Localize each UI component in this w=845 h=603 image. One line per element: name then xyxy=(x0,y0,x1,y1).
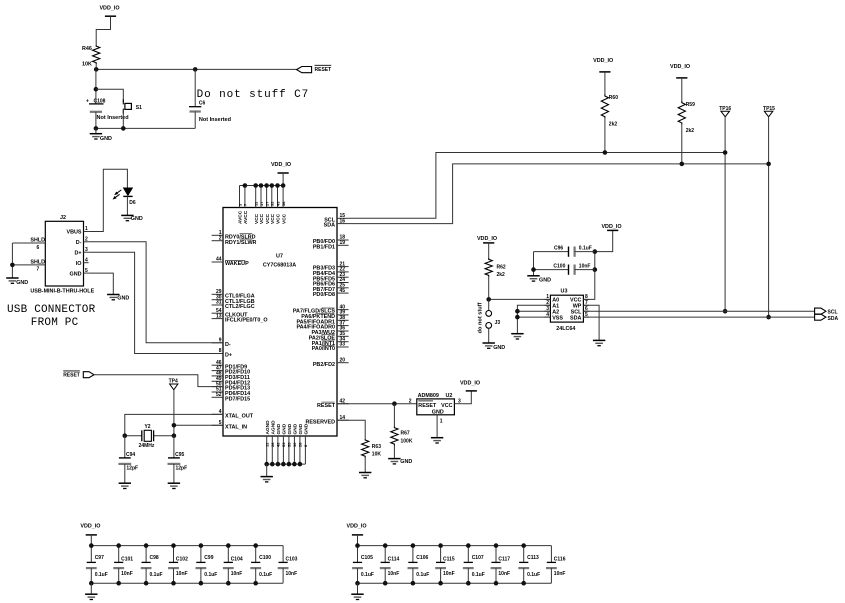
capacitor C113 0.1uF xyxy=(523,546,525,563)
svg-text:R62: R62 xyxy=(497,264,506,270)
terminal SDA xyxy=(815,314,826,320)
svg-text:VBUS: VBUS xyxy=(67,230,82,236)
svg-text:D+: D+ xyxy=(74,250,81,256)
svg-text:RESET: RESET xyxy=(63,373,80,379)
svg-text:VCC: VCC xyxy=(270,213,276,224)
wire TP4 down xyxy=(173,390,175,436)
ground (cap bank) xyxy=(90,583,92,594)
wire U2 VCC to VDD_IO xyxy=(462,391,471,404)
wire xyxy=(126,196,128,215)
svg-text:5: 5 xyxy=(85,268,88,274)
ground (U7) xyxy=(266,464,268,477)
wire SDA out xyxy=(583,316,814,318)
ground (D6) xyxy=(121,214,133,216)
svg-text:24LC64: 24LC64 xyxy=(556,326,575,332)
wire bottom bus xyxy=(91,582,283,584)
svg-text:VDD_IO: VDD_IO xyxy=(477,236,497,242)
svg-text:R60: R60 xyxy=(609,95,618,101)
wire D+ to U7 xyxy=(89,252,223,353)
wire VCC bus xyxy=(240,185,284,187)
svg-text:7: 7 xyxy=(37,267,40,273)
svg-text:10nF: 10nF xyxy=(498,571,510,577)
svg-text:GND: GND xyxy=(131,216,143,222)
jumper J3 (do not stuff) xyxy=(488,299,490,310)
eeprom U3 24LC64 box xyxy=(550,295,583,322)
svg-text:2k2: 2k2 xyxy=(686,128,695,134)
power VDD_IO (U7 top) xyxy=(278,172,289,174)
pin 38 PA5/FIFOADR1 (U7 right) xyxy=(337,319,349,321)
svg-text:10K: 10K xyxy=(82,62,92,68)
svg-text:8: 8 xyxy=(219,348,222,354)
capacitor C104 10nF xyxy=(227,546,229,563)
pin 4 XTAL_OUT (U7 left) xyxy=(212,413,223,415)
svg-text:1: 1 xyxy=(85,226,88,232)
svg-text:26: 26 xyxy=(270,442,275,447)
capacitor C106 0.1uF xyxy=(412,546,414,563)
svg-text:PD0/FD8: PD0/FD8 xyxy=(313,292,335,298)
svg-text:53: 53 xyxy=(281,442,286,447)
pin 7 WP (U3 right) xyxy=(583,304,589,306)
power VDD_IO (U3) xyxy=(607,229,618,231)
svg-text:S1: S1 xyxy=(136,105,142,111)
capacitor C96 0.1uF xyxy=(534,251,569,253)
svg-text:RESET: RESET xyxy=(418,403,437,409)
svg-text:R63: R63 xyxy=(372,444,381,450)
resistor R62 2k2 xyxy=(483,242,494,244)
svg-text:GND: GND xyxy=(304,423,310,434)
svg-text:SDA: SDA xyxy=(570,315,581,321)
svg-text:24MHz: 24MHz xyxy=(139,443,155,449)
ground (U2) xyxy=(431,437,443,439)
pin 2 RDY1/SLWR (U7 left) xyxy=(212,240,223,242)
ground (R63) xyxy=(359,472,371,474)
crystal Y2 24MHz xyxy=(125,435,142,437)
svg-text:USB CONNECTOR: USB CONNECTOR xyxy=(7,304,96,316)
capacitor C102 10nF xyxy=(173,546,175,563)
svg-text:C116: C116 xyxy=(554,557,566,563)
ground (C96/C100) xyxy=(527,275,539,277)
svg-text:C95: C95 xyxy=(175,452,184,458)
pin 1 VBUS (J2) xyxy=(84,231,89,233)
pin 34 PA1/INT1 (U7 right) xyxy=(337,341,349,343)
svg-text:PA0/INT0: PA0/INT0 xyxy=(312,346,335,352)
power VDD_IO (U2) xyxy=(466,390,477,392)
pin 6 SCL (U3 right) xyxy=(583,310,589,312)
svg-text:CTL2/FLGC: CTL2/FLGC xyxy=(225,304,255,310)
svg-text:44: 44 xyxy=(216,257,222,263)
svg-text:Y2: Y2 xyxy=(144,424,150,430)
svg-text:0.1uF: 0.1uF xyxy=(204,572,217,578)
svg-text:C115: C115 xyxy=(443,557,455,563)
svg-text:10nF: 10nF xyxy=(579,264,591,270)
pin GND (U7 bottom col 4) xyxy=(282,436,284,464)
svg-text:C108: C108 xyxy=(94,98,106,104)
wire RESET net xyxy=(95,64,97,69)
svg-text:10nF: 10nF xyxy=(231,571,243,577)
svg-text:SCL: SCL xyxy=(828,310,838,316)
svg-text:9: 9 xyxy=(219,338,222,344)
svg-text:FROM PC: FROM PC xyxy=(31,317,79,329)
pin 31 CTL2/FLGC (U7 left) xyxy=(212,304,223,306)
svg-text:U7: U7 xyxy=(276,254,283,260)
pin VCC (U7 top col 5) xyxy=(266,186,268,208)
capacitor C103 10nF xyxy=(282,546,284,563)
svg-text:J2: J2 xyxy=(60,215,66,221)
svg-text:VCC: VCC xyxy=(276,213,282,224)
svg-text:C100: C100 xyxy=(259,555,271,561)
svg-text:VDD_IO: VDD_IO xyxy=(460,380,480,386)
pin 46 PD1/FD9 (U7 left) xyxy=(212,364,223,366)
capacitor C114 10nF xyxy=(384,546,386,563)
svg-text:10nF: 10nF xyxy=(388,571,400,577)
pin 18 PB0/FD0 (U7 right) xyxy=(337,239,349,241)
svg-text:D6: D6 xyxy=(129,200,136,206)
ground (U3 address) xyxy=(511,333,523,335)
svg-text:XTAL_OUT: XTAL_OUT xyxy=(225,413,254,419)
pin 4 IO (J2) xyxy=(84,262,89,264)
svg-text:C105: C105 xyxy=(361,555,373,561)
connector J2 box xyxy=(45,221,83,286)
svg-text:VDD_IO: VDD_IO xyxy=(99,6,119,12)
svg-text:PD7/FD15: PD7/FD15 xyxy=(225,396,250,402)
pin 1 A0 (U3 left) xyxy=(545,298,551,300)
pin 36 PA3/WU2 (U7 right) xyxy=(337,330,349,332)
wire S1 branch xyxy=(96,89,123,102)
pin GND (U7 bottom col 8) xyxy=(304,436,306,464)
wire RESET to pin 50 xyxy=(94,375,223,387)
svg-text:C101: C101 xyxy=(121,557,133,563)
pin 5 XTAL_IN (U7 left) xyxy=(212,424,223,426)
capacitor C6 (do not stuff) xyxy=(194,69,196,106)
svg-text:12: 12 xyxy=(265,442,270,447)
power VDD_IO (cap bank) xyxy=(86,534,97,536)
pin 45 PD0/FD8 (U7 right) xyxy=(337,292,349,294)
capacitor C100 0.1uF xyxy=(255,546,257,563)
svg-text:C97: C97 xyxy=(95,555,104,561)
wire cap left to gnd xyxy=(533,252,535,276)
svg-text:45: 45 xyxy=(340,288,346,294)
svg-text:42: 42 xyxy=(276,442,281,447)
svg-text:C6: C6 xyxy=(199,101,206,107)
terminal SCL xyxy=(815,308,826,314)
wire top bus xyxy=(358,545,552,547)
node junction xyxy=(94,67,99,72)
wire SCL out xyxy=(583,310,814,312)
wire SCL from U7 xyxy=(349,153,725,219)
svg-text:Do not stuff C7: Do not stuff C7 xyxy=(197,89,310,101)
svg-text:C114: C114 xyxy=(388,557,400,563)
svg-text:GND: GND xyxy=(276,423,282,434)
svg-text:2: 2 xyxy=(85,237,88,243)
pin 3 A2 (U3 left) xyxy=(545,310,551,312)
pin 37 PA4/FIFOADR0 (U7 right) xyxy=(337,325,349,327)
ground (J2 pin5) xyxy=(107,294,119,296)
svg-text:SHLD: SHLD xyxy=(30,260,45,266)
capacitor C117 10nF xyxy=(495,546,497,563)
supervisor U2 ADM809 xyxy=(417,399,455,415)
svg-text:GND: GND xyxy=(298,423,304,434)
wire xyxy=(96,16,110,45)
pin 29 CTL0/FLGA (U7 left) xyxy=(212,293,223,295)
wire GND bus (U7 bottom) xyxy=(267,463,306,465)
pin 30 CTL1/FLGB (U7 left) xyxy=(212,299,223,301)
pin 21 PB3/FD3 (U7 right) xyxy=(337,266,349,268)
svg-text:VDD_IO: VDD_IO xyxy=(80,524,100,530)
svg-text:3: 3 xyxy=(458,398,461,404)
resistor R46 10K xyxy=(93,45,100,64)
pin 8 D+ (U7 left) xyxy=(212,353,223,355)
svg-text:0.1uF: 0.1uF xyxy=(361,572,374,578)
wire D- to U7 xyxy=(89,242,223,343)
wire shield to gnd xyxy=(11,243,13,278)
svg-text:0.1uF: 0.1uF xyxy=(527,572,540,578)
wire A0 xyxy=(489,298,551,300)
svg-text:VDD_IO: VDD_IO xyxy=(670,64,690,70)
pin VCC (U7 top col 4) xyxy=(260,186,262,208)
svg-text:10nF: 10nF xyxy=(176,571,188,577)
svg-text:C104: C104 xyxy=(231,557,243,563)
svg-text:C113: C113 xyxy=(527,555,539,561)
pin GND (U7 bottom col 6) xyxy=(293,436,295,464)
svg-text:SHLD: SHLD xyxy=(30,238,45,244)
svg-text:31: 31 xyxy=(216,300,222,306)
capacitor C107 0.1uF xyxy=(467,546,469,563)
wire TP16 down to SCL xyxy=(724,117,726,311)
ground (C108) xyxy=(95,128,97,133)
svg-text:AGND: AGND xyxy=(265,420,271,435)
pin 23 PB5/FD5 (U7 right) xyxy=(337,276,349,278)
svg-text:32: 32 xyxy=(270,201,275,206)
svg-text:10nF: 10nF xyxy=(443,571,455,577)
svg-text:0.1uF: 0.1uF xyxy=(416,572,429,578)
resistor R67 100K xyxy=(393,404,395,427)
resistor R60 2k2 pullup xyxy=(599,71,610,73)
svg-text:J3: J3 xyxy=(495,320,501,326)
svg-text:CY7C68013A: CY7C68013A xyxy=(263,263,296,269)
svg-text:GND: GND xyxy=(400,459,412,465)
power VDD_IO (cap bank) xyxy=(352,534,363,536)
wire WP to gnd xyxy=(583,305,599,340)
svg-text:10K: 10K xyxy=(372,452,382,458)
pin 24 PB6/FD6 (U7 right) xyxy=(337,282,349,284)
power VDD_IO (R46) xyxy=(105,15,116,17)
svg-text:GND: GND xyxy=(287,423,293,434)
capacitor C97 0.1uF xyxy=(90,546,92,563)
svg-text:56: 56 xyxy=(281,201,286,206)
wire top bus xyxy=(91,545,283,547)
pin 3 D+ (J2) xyxy=(84,251,89,253)
svg-text:VDD_IO: VDD_IO xyxy=(347,524,367,530)
capacitor C94 12pF xyxy=(124,436,126,458)
svg-text:RDY1/SLWR: RDY1/SLWR xyxy=(225,240,257,246)
pin 16 SDA (U7 right) xyxy=(337,223,349,225)
svg-text:2: 2 xyxy=(219,235,222,241)
pin 39 PA6/PKTEND (U7 right) xyxy=(337,314,349,316)
pin 22 PB4/FD4 (U7 right) xyxy=(337,271,349,273)
pin VCC (U7 top col 3) xyxy=(255,186,257,208)
svg-text:10: 10 xyxy=(292,442,297,447)
ground (WP) xyxy=(593,339,605,341)
pin 52 PD7/FD15 (U7 left) xyxy=(212,396,223,398)
svg-text:GND: GND xyxy=(16,280,28,286)
pin 40 PA7/FLGD/SLCS (U7 right) xyxy=(337,309,349,311)
svg-text:GND: GND xyxy=(432,410,444,416)
wire TP15 down to SDA xyxy=(768,117,770,317)
pin 9 D- (U7 left) xyxy=(212,342,223,344)
svg-text:16: 16 xyxy=(340,218,346,224)
svg-text:VDD_IO: VDD_IO xyxy=(271,162,291,168)
svg-text:52: 52 xyxy=(216,392,222,398)
pin 7 SHLD (J2) xyxy=(12,264,45,266)
svg-text:GND: GND xyxy=(539,278,551,284)
pin 42 RESET (U7 right) xyxy=(337,403,349,405)
svg-text:0.1uF: 0.1uF xyxy=(579,246,592,252)
svg-text:0.1uF: 0.1uF xyxy=(259,572,272,578)
switch S1 (not inserted) xyxy=(125,103,131,109)
LED D6 xyxy=(123,188,134,197)
svg-text:C117: C117 xyxy=(498,557,510,563)
svg-text:VCC: VCC xyxy=(281,213,287,224)
pin 2 D- (J2) xyxy=(84,241,89,243)
pin 48 PD3/FD11 (U7 left) xyxy=(212,375,223,377)
capacitor C115 10nF xyxy=(440,546,442,563)
svg-text:VCC: VCC xyxy=(254,213,260,224)
svg-text:RESERVED: RESERVED xyxy=(305,419,335,425)
pin 6 SHLD (J2) xyxy=(12,242,45,244)
wire A1/A2/VSS to gnd xyxy=(517,305,550,333)
wire C108 branch xyxy=(95,69,97,104)
svg-text:PB2/FD2: PB2/FD2 xyxy=(313,362,335,368)
svg-text:PB1/FD1: PB1/FD1 xyxy=(313,244,335,250)
terminal RESET (top) xyxy=(297,67,312,73)
svg-text:do not stuff: do not stuff xyxy=(478,302,484,333)
svg-text:28: 28 xyxy=(298,442,303,447)
ground (shield) xyxy=(6,277,18,279)
wire VCC to VDD_IO xyxy=(583,252,594,300)
wire SDA from U7 xyxy=(349,164,769,224)
svg-text:VCC: VCC xyxy=(259,213,265,224)
pin 50 PD5/FD13 (U7 left) xyxy=(212,386,223,388)
LED arrows xyxy=(116,190,121,194)
svg-text:D-: D- xyxy=(76,240,82,246)
svg-text:U2: U2 xyxy=(446,393,453,399)
svg-text:RESET: RESET xyxy=(317,403,336,409)
svg-text:10nF: 10nF xyxy=(121,571,133,577)
pin VCC (U7 top col 6) xyxy=(271,186,273,208)
capacitor C101 10nF xyxy=(118,546,120,563)
resistor R59 2k2 pullup xyxy=(676,77,687,79)
pin VCC (U7 top col 7) xyxy=(277,186,279,208)
overbar SLRD/SLWR/WAKEUP xyxy=(240,233,253,235)
wire VBUS to LED xyxy=(89,169,128,231)
pin AVCC (U7 top col 1) xyxy=(239,186,241,208)
svg-text:2k2: 2k2 xyxy=(497,272,506,278)
pin 2 A1 (U3 left) xyxy=(545,304,551,306)
pin 20 PB2/FD2 (U7 right) xyxy=(337,362,349,364)
wire bottom bus xyxy=(358,582,552,584)
svg-text:R59: R59 xyxy=(686,102,695,108)
svg-text:D+: D+ xyxy=(225,353,232,359)
pin GND (U7 bottom col 3) xyxy=(277,436,279,464)
svg-text:IO: IO xyxy=(76,261,82,267)
pin 51 PD6/FD14 (U7 left) xyxy=(212,391,223,393)
pin 1 RDY0/SLRD (U7 left) xyxy=(212,234,223,236)
svg-text:Not Inserted: Not Inserted xyxy=(199,117,231,123)
capacitor C105 0.1uF xyxy=(357,546,359,563)
wire RESERVED to R63 xyxy=(337,420,365,439)
svg-text:+: + xyxy=(86,98,89,104)
svg-text:VDD_IO: VDD_IO xyxy=(601,224,621,230)
svg-text:R67: R67 xyxy=(401,430,410,436)
wire bottom bus xyxy=(96,127,195,129)
svg-text:GND: GND xyxy=(293,423,299,434)
svg-text:0.1uF: 0.1uF xyxy=(95,572,108,578)
pin VCC (U7 top col 8) xyxy=(282,186,284,208)
svg-text:GND: GND xyxy=(70,271,82,277)
svg-text:C100: C100 xyxy=(553,264,565,270)
svg-text:GND: GND xyxy=(100,136,112,142)
svg-text:VCC: VCC xyxy=(441,403,452,409)
pin 25 PB7/FD7 (U7 right) xyxy=(337,287,349,289)
svg-text:SDA: SDA xyxy=(324,223,335,229)
capacitor C98 0.1uF xyxy=(145,546,147,563)
pin 54 CLKOUT (U7 left) xyxy=(212,312,223,314)
svg-text:VSS: VSS xyxy=(552,315,563,321)
svg-text:4: 4 xyxy=(85,257,88,263)
capacitor C100 10nF xyxy=(534,269,569,271)
svg-text:6: 6 xyxy=(37,245,40,251)
svg-text:C96: C96 xyxy=(554,246,563,252)
pin 19 PB1/FD1 (U7 right) xyxy=(337,244,349,246)
svg-text:AVCC: AVCC xyxy=(238,210,244,224)
capacitor C99 0.1uF xyxy=(200,546,202,563)
svg-text:3: 3 xyxy=(85,247,88,253)
ground (cap bank) xyxy=(357,583,359,594)
svg-text:AGND: AGND xyxy=(271,420,277,435)
svg-text:100K: 100K xyxy=(401,438,413,444)
pin GND (U7 bottom col 5) xyxy=(288,436,290,464)
pin AVCC (U7 top col 2) xyxy=(244,186,246,208)
pin 8 VCC (U3 right) xyxy=(583,298,589,300)
svg-text:C107: C107 xyxy=(472,555,484,561)
svg-text:1: 1 xyxy=(440,419,443,425)
ground (R67) xyxy=(388,458,400,460)
svg-text:WAKEUP: WAKEUP xyxy=(225,261,249,267)
pin 3 VCC (U2) xyxy=(454,403,462,405)
pin 35 PA2/SLOE (U7 right) xyxy=(337,335,349,337)
pin 5 GND (J2) xyxy=(84,272,89,274)
svg-text:33: 33 xyxy=(340,342,346,348)
ground (J3) xyxy=(483,342,495,344)
pin 47 PD2/FD10 (U7 left) xyxy=(212,370,223,372)
svg-text:C102: C102 xyxy=(176,557,188,563)
svg-text:SDA: SDA xyxy=(828,316,839,322)
pin AGND (U7 bottom col 1) xyxy=(266,436,268,464)
svg-text:10nF: 10nF xyxy=(286,571,298,577)
pin 44 WAKEUP (U7 left) xyxy=(212,261,223,263)
svg-text:VDD_IO: VDD_IO xyxy=(593,58,613,64)
svg-text:IFCLK/PE0/T0_O: IFCLK/PE0/T0_O xyxy=(225,318,268,324)
ground (C94) xyxy=(119,482,131,484)
capacitor C108 (not inserted) xyxy=(89,103,104,105)
svg-text:C103: C103 xyxy=(286,557,298,563)
resistor R63 10K xyxy=(362,439,369,458)
svg-text:19: 19 xyxy=(340,240,346,246)
pin 13 IFCLK/PE0/T0_O (U7 left) xyxy=(212,318,223,320)
svg-text:USB-MINI-B-THRU-HOLE: USB-MINI-B-THRU-HOLE xyxy=(30,289,94,295)
svg-text:17: 17 xyxy=(259,201,264,206)
svg-text:0.1uF: 0.1uF xyxy=(150,572,163,578)
